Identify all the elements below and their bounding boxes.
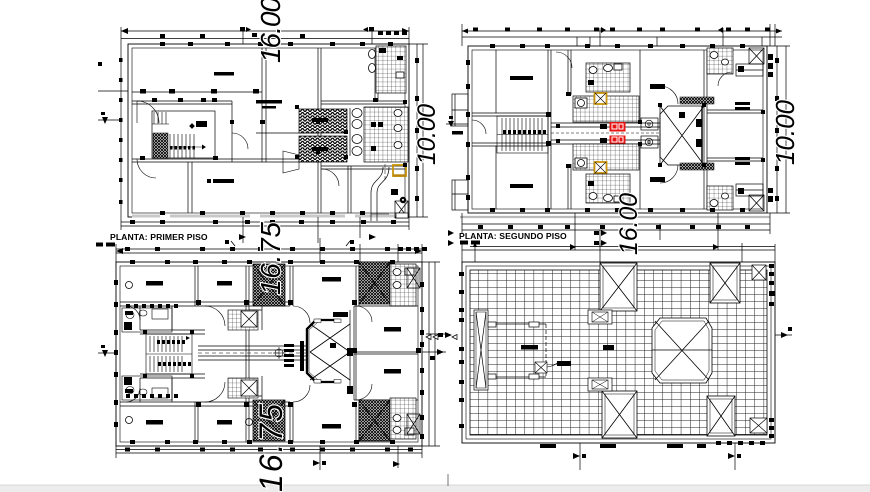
plan4 left small xbox <box>535 362 557 373</box>
plan1 right dimension ticks <box>415 58 419 201</box>
plan2 gray band <box>460 216 770 218</box>
plan1 title <box>96 232 208 247</box>
plan3 kitchen bottom-center <box>228 378 258 398</box>
plan3 bath bottom-left fixtures <box>122 376 172 400</box>
plan3 right dimension arrow <box>430 349 444 360</box>
plan2 upper yellow box <box>595 93 607 104</box>
plan4 left room furniture <box>521 345 571 366</box>
plan3 xbox top-center <box>241 311 257 327</box>
plan1 top dimension ticks <box>121 27 409 38</box>
plan3 corridor dashes <box>198 352 306 354</box>
plan1 stair label blob <box>189 121 207 129</box>
plan3 kitchen top-center <box>228 310 258 330</box>
svg-text:10.00: 10.00 <box>413 104 441 165</box>
plan4 bottom dimension marks <box>540 418 774 459</box>
plan2 top dimension ticks <box>462 27 782 34</box>
plan4 TL xbox <box>600 263 637 311</box>
plan2 hatch band above patio <box>680 97 714 104</box>
svg-text:16.75: 16.75 <box>255 222 286 295</box>
footer gray bar <box>0 485 870 492</box>
plan1 left markers <box>98 62 128 124</box>
plan3 xbox bottom-center <box>241 380 257 396</box>
plan1 sink circles <box>350 108 362 156</box>
plan2 right wall squares <box>768 54 773 202</box>
plan3 bottom hatch patch right <box>359 400 390 441</box>
plan1 top dimension lines <box>121 27 409 44</box>
plan3 xbox bottom-right <box>407 414 420 434</box>
plan2 column squares <box>466 44 765 212</box>
plan2 stairs <box>497 116 548 153</box>
plan3 outer wall <box>116 262 422 446</box>
plan3 top dimension ticks <box>116 247 427 254</box>
plan2 dim text 16.00 bottom <box>615 193 643 255</box>
plan1 curved corridor <box>371 164 389 221</box>
plan1 bottom dimension ticks <box>130 220 396 246</box>
plan1 stair treads <box>170 134 205 158</box>
plan1 herringbone patch lower <box>299 136 347 162</box>
plan1 right dimension lines <box>409 44 428 217</box>
plan3 top dimension lines <box>116 238 422 262</box>
plan1 bath grid upper-right <box>369 46 407 93</box>
plan3 bottom dimension ticks <box>125 448 413 468</box>
plan3 stair feet marks <box>157 336 191 366</box>
plan2 lower bath grid <box>586 174 630 203</box>
svg-text:16.00: 16.00 <box>615 193 643 255</box>
plan4 roof grid <box>470 270 767 435</box>
plan2 stove counters <box>641 118 658 148</box>
plan1 dim text 16.75 bottom <box>255 222 286 295</box>
plan3 door arcs <box>126 306 372 402</box>
plan4 BR xbox <box>707 396 735 436</box>
plan2 bottom dimension lines <box>462 213 770 250</box>
plan2 closet top-right <box>736 64 763 76</box>
plan2 bottom-right xbox <box>749 195 764 211</box>
plan2 top-right xbox <box>749 48 764 64</box>
plan4 TL small box <box>588 310 612 324</box>
plan2 left balconies <box>452 94 468 210</box>
plan4 left room outline <box>488 322 546 379</box>
plan4 TR xbox <box>710 263 740 303</box>
plan1 herringbone patch upper <box>299 109 347 133</box>
svg-text:10.00: 10.00 <box>770 99 800 165</box>
plan3 interior walls <box>120 266 418 442</box>
plan1 furniture marks <box>207 72 282 183</box>
plan4 BR corner xbox <box>750 418 767 433</box>
svg-text:PLANTA: PRIMER PISO: PLANTA: PRIMER PISO <box>110 232 208 242</box>
plan1 stair hatch block <box>153 133 168 158</box>
plan2 top-right bath <box>707 48 733 74</box>
plan2 title <box>459 231 567 245</box>
svg-text:16.75: 16.75 <box>253 404 289 492</box>
plan3 bath top-left fixtures <box>122 308 172 332</box>
plan1 bottom dimension lines <box>121 217 409 243</box>
plan3 patio double x <box>307 310 353 394</box>
plan3 top hatch patch right <box>359 262 390 304</box>
plan2 red box lower <box>610 136 626 146</box>
plan3 bath wall squares row <box>126 304 178 398</box>
plan2 right dimension ticks <box>775 58 779 201</box>
plan4 left dimension marks <box>438 272 464 428</box>
plan4 BL xbox <box>602 391 637 438</box>
plan1 dim text 10.00 right <box>413 104 441 165</box>
plan2 room beds <box>510 76 750 188</box>
plan2 top dimension lines <box>462 24 782 46</box>
plan4 center octagon <box>652 318 712 383</box>
plan1 x-box bottom right <box>395 201 408 218</box>
plan2 closet bottom-right <box>736 184 763 196</box>
plan1 left dimension line <box>120 44 122 217</box>
plan2 patio x-box <box>660 106 704 165</box>
plan2 left markers <box>446 116 468 246</box>
plan1 column squares <box>119 42 407 215</box>
plan3 bottom hatch patch left <box>253 400 285 441</box>
plan2 interior walls <box>472 50 763 209</box>
plan3 bottom dimension lines <box>116 446 422 470</box>
plan3 right dimension lines <box>422 262 446 446</box>
plan2 right dimension lines <box>767 46 790 213</box>
plan1 bath grid mid-right <box>364 107 408 162</box>
plan1 interior walls <box>132 48 405 213</box>
plan2 door arcs <box>472 52 732 183</box>
plan4 TR corner xbox <box>752 265 766 280</box>
plan3 left markers <box>98 345 116 357</box>
plan1 outer wall <box>128 44 409 217</box>
plan4 black bar center <box>603 345 614 350</box>
plan1 funnel shape <box>283 151 299 173</box>
plan2 corridor marks <box>556 124 607 143</box>
plan3 axis bubbles <box>126 282 253 426</box>
plan2 hatch band below patio <box>680 163 714 170</box>
svg-text:16.00: 16.00 <box>255 0 286 63</box>
plan3 room beds <box>125 277 401 429</box>
plan3 bath bottom-right grid <box>390 398 416 439</box>
plan3 column squares <box>114 260 424 444</box>
plan2 bottom dimension ticks <box>478 225 750 250</box>
plan3 top hatch patch left <box>253 264 285 306</box>
plan3 dim text 16.75 bottom <box>253 404 289 492</box>
plan4 left stair xrect <box>474 310 488 390</box>
plan2 outer wall <box>468 46 767 213</box>
plan1 black sq + circle bottom right <box>391 189 406 203</box>
plan4 top dimension <box>462 242 775 262</box>
plan2 bottom-right bath <box>707 186 733 210</box>
plan2 upper bath grid <box>586 63 630 92</box>
plan2 dim text 10.00 right <box>770 99 800 165</box>
plan4 outer border <box>462 262 775 443</box>
plan1 door arcs <box>137 101 339 186</box>
plan4 BL small box <box>588 378 612 391</box>
plan1 stair room <box>152 111 215 158</box>
svg-text:PLANTA: SEGUNDO PISO: PLANTA: SEGUNDO PISO <box>459 231 567 241</box>
plan4 bottom tick lines <box>580 443 735 470</box>
plan3 xbox top-right <box>407 268 420 288</box>
plan3 bath top-right grid <box>390 264 416 306</box>
plan3 corridor shelf marks <box>284 341 304 371</box>
plan1 stair upper treads <box>152 112 169 124</box>
plan2 red box upper <box>610 122 626 132</box>
plan4 right dimension marks <box>775 327 792 338</box>
plan1 yellow box <box>393 165 406 176</box>
plan3 stairs <box>146 334 192 374</box>
plan3 center cross symbol <box>273 347 285 359</box>
plan2 lower yellow box <box>595 162 607 173</box>
plan2 upper kitchen grid <box>573 96 639 122</box>
plan1 dim text 16.00 top <box>255 0 286 63</box>
plan2 lower kitchen grid <box>573 144 639 170</box>
